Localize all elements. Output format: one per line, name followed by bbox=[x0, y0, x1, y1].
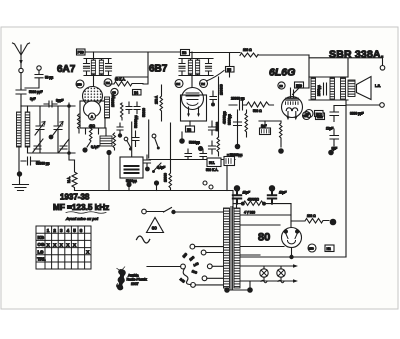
svg-text:10µF: 10µF bbox=[279, 191, 287, 195]
screen circle 250 bbox=[76, 80, 84, 88]
junction dot bbox=[154, 180, 159, 190]
circle 7M bbox=[104, 79, 112, 87]
svg-text:50000µµ: 50000µµ bbox=[134, 115, 138, 128]
svg-text:8000µµ: 8000µµ bbox=[228, 114, 232, 125]
electrolytic 1uF bbox=[260, 121, 271, 135]
svg-text:X: X bbox=[60, 242, 63, 247]
junction dot bbox=[145, 167, 150, 172]
resistor 100R top bbox=[240, 53, 383, 65]
output bottom rail bbox=[309, 99, 348, 101]
svg-text:6B7: 6B7 bbox=[149, 64, 168, 75]
tag box P bbox=[77, 49, 86, 55]
capacitor block bbox=[100, 128, 112, 146]
mains switch bbox=[146, 208, 175, 215]
svg-text:0,1µF: 0,1µF bbox=[91, 145, 99, 149]
svg-text:2000µµ: 2000µµ bbox=[317, 85, 321, 96]
svg-text:80: 80 bbox=[258, 232, 270, 244]
svg-text:MF =123.5 kHz: MF =123.5 kHz bbox=[53, 203, 109, 212]
selector terminal 245 bbox=[191, 283, 224, 288]
tube pins bbox=[86, 128, 99, 134]
svg-text:50 K.A.: 50 K.A. bbox=[115, 78, 126, 82]
filter vertical main bbox=[345, 100, 347, 257]
svg-text:1937-38: 1937-38 bbox=[60, 193, 90, 202]
svg-text:50 µµ: 50 µµ bbox=[45, 76, 53, 80]
circle 6M bbox=[175, 80, 183, 88]
capacitor 5000uuF bbox=[16, 89, 26, 107]
svg-text:E4: E4 bbox=[134, 91, 138, 95]
output transformer bbox=[341, 78, 346, 99]
tube pins arrows bbox=[187, 107, 200, 117]
secondary line 2 bbox=[240, 224, 281, 226]
bus AF bbox=[149, 159, 235, 161]
svg-text:KG: KG bbox=[38, 235, 45, 240]
tag box E3 bbox=[181, 50, 190, 56]
svg-text:E3: E3 bbox=[182, 51, 186, 55]
MF underline bbox=[66, 212, 106, 214]
tag box E4 bbox=[133, 90, 142, 96]
heater line 2 bbox=[240, 279, 298, 282]
svg-text:90: 90 bbox=[112, 90, 116, 94]
svg-text:6A7: 6A7 bbox=[57, 64, 76, 75]
secondary 4V line bbox=[240, 214, 292, 216]
wire to transformer top bbox=[232, 191, 234, 209]
svg-text:E5: E5 bbox=[227, 68, 231, 72]
svg-text:8000 µµF: 8000 µµF bbox=[350, 112, 364, 116]
antenna bbox=[13, 43, 30, 68]
circle 20 bbox=[278, 82, 285, 89]
tag box E5 bbox=[226, 67, 235, 73]
svg-text:M.A.: M.A. bbox=[67, 176, 71, 183]
pilot lamp 1 bbox=[260, 266, 268, 283]
speaker terminal 2 bbox=[346, 103, 384, 108]
tube 80 pin bbox=[289, 248, 293, 260]
svg-text:100 Ω: 100 Ω bbox=[243, 48, 252, 52]
resistor bias bbox=[113, 133, 116, 150]
capacitor pair bbox=[132, 131, 139, 147]
svg-text:1987: 1987 bbox=[131, 282, 139, 286]
svg-text:10000µµ: 10000µµ bbox=[111, 94, 115, 107]
svg-text:= 50000µµ: = 50000µµ bbox=[227, 153, 242, 157]
capacitor on bus bbox=[185, 149, 192, 160]
svg-text:250: 250 bbox=[309, 246, 314, 250]
rectifier 80 tube bbox=[282, 228, 302, 248]
wire band vertical bbox=[132, 122, 143, 158]
antenna terminal A1 bbox=[19, 68, 23, 72]
svg-text:50000: 50000 bbox=[142, 108, 146, 117]
capacitor pair F bbox=[209, 141, 216, 154]
wire mid bus bbox=[28, 152, 76, 154]
svg-text:E2: E2 bbox=[187, 128, 191, 132]
capacitor on bus 2 bbox=[200, 149, 207, 160]
svg-text:10µF: 10µF bbox=[243, 191, 251, 195]
antenna coil L1 bbox=[17, 106, 22, 147]
IF2 wire drop bbox=[191, 52, 193, 59]
wire bus to resistor bbox=[190, 52, 241, 54]
svg-text:X: X bbox=[66, 242, 69, 247]
pot box 2 bbox=[224, 157, 235, 166]
ground bbox=[13, 176, 29, 191]
capacitor coupling G bbox=[229, 100, 247, 110]
tone capacitor bbox=[324, 83, 327, 95]
table X marks bbox=[47, 242, 90, 254]
resistor MA bbox=[72, 160, 77, 191]
resistor grid leak bbox=[78, 114, 81, 133]
padder box bbox=[120, 157, 143, 178]
filter cap 8uF bbox=[330, 129, 339, 145]
svg-text:6L6G: 6L6G bbox=[269, 67, 295, 79]
svg-text:E12: E12 bbox=[316, 112, 322, 116]
circle HP bbox=[305, 110, 313, 118]
tube 6A7 bbox=[83, 87, 103, 121]
capacitor 50uu bbox=[25, 70, 43, 88]
secondary line 4 bbox=[240, 254, 261, 256]
svg-text:8µµF: 8µµF bbox=[56, 99, 63, 103]
resistor 20000 bbox=[245, 110, 248, 137]
capacitor 50000uu bbox=[21, 157, 40, 165]
capacitor pair bbox=[144, 155, 151, 167]
wire antenna down bbox=[20, 73, 22, 89]
wire filter to B+ bbox=[264, 203, 291, 205]
svg-text:60: 60 bbox=[152, 226, 158, 231]
svg-text:SBR 338A.: SBR 338A. bbox=[329, 49, 384, 61]
tag box H2 bbox=[325, 245, 334, 252]
junction dot bbox=[49, 135, 54, 140]
resistor 250A bbox=[160, 85, 163, 121]
svg-text:500 K.A.: 500 K.A. bbox=[206, 168, 218, 172]
filter cap 12uF bbox=[330, 106, 339, 122]
junction dot bbox=[106, 150, 111, 155]
circle 250 out bbox=[303, 112, 311, 120]
tag box E11 bbox=[316, 113, 325, 120]
circle 250 rect bbox=[308, 244, 316, 252]
svg-text:X: X bbox=[47, 242, 50, 247]
PU jack 2 bbox=[209, 185, 213, 189]
speaker bbox=[348, 77, 371, 100]
selector wiper bbox=[183, 269, 191, 285]
cathode arrows bbox=[287, 112, 298, 121]
selector input circle bbox=[181, 264, 186, 269]
resistor 50KA bbox=[104, 82, 143, 87]
selector terminal 110 bbox=[190, 244, 224, 249]
filter cap 10uF a bbox=[233, 185, 241, 204]
filter cap 10uF b bbox=[268, 185, 276, 204]
svg-text:TRL: TRL bbox=[37, 257, 46, 262]
svg-text:HP: HP bbox=[306, 112, 310, 116]
circle 90 bbox=[111, 88, 118, 95]
wire coil down bbox=[19, 147, 28, 174]
top B+ bus bbox=[85, 51, 180, 53]
credit text bbox=[127, 274, 148, 286]
wire cathode row bbox=[259, 120, 281, 122]
tube 6B7 bbox=[182, 88, 204, 110]
tube shield box bbox=[80, 101, 105, 128]
svg-text:40000Ω: 40000Ω bbox=[248, 198, 260, 202]
wire input bus bbox=[21, 105, 75, 107]
heater line 1 bbox=[240, 264, 298, 267]
IF transformer 2 bbox=[179, 59, 213, 76]
svg-text:X: X bbox=[73, 242, 76, 247]
resistor right col bbox=[217, 137, 220, 156]
long bottom bus bbox=[75, 190, 234, 192]
wire right column bbox=[218, 77, 220, 137]
selector terminal 140 bbox=[207, 264, 224, 269]
svg-text:X: X bbox=[53, 242, 56, 247]
svg-text:100000: 100000 bbox=[220, 84, 224, 95]
junction dot bbox=[262, 202, 266, 206]
table row labels bbox=[37, 235, 46, 262]
svg-text:20000 µµ: 20000 µµ bbox=[231, 97, 245, 101]
capacitor pair bbox=[126, 102, 132, 114]
wire cap column bbox=[331, 106, 346, 153]
wire tube to E2 bbox=[189, 121, 191, 126]
junction dot bbox=[126, 182, 131, 191]
svg-text:4 V 300: 4 V 300 bbox=[244, 211, 255, 215]
mermaid logo bbox=[116, 267, 125, 290]
tag box E12 bbox=[315, 111, 324, 117]
speaker terminal 1 bbox=[348, 58, 385, 77]
IF1 wire drop bbox=[93, 52, 95, 59]
svg-text:0,1µF: 0,1µF bbox=[157, 166, 165, 170]
svg-text:P50: P50 bbox=[78, 51, 84, 55]
junction dot AVC bbox=[179, 132, 185, 144]
mains wire to transformer bbox=[175, 211, 224, 213]
svg-text:50000 µµ: 50000 µµ bbox=[36, 162, 50, 166]
resistor cathode bbox=[280, 121, 283, 147]
wire pot down bbox=[226, 166, 228, 191]
pot box PU bbox=[207, 158, 221, 167]
junction dot bbox=[278, 148, 284, 154]
osc coil L2 bbox=[25, 106, 30, 147]
junction dot bbox=[241, 202, 245, 206]
circle 7M2 bbox=[200, 80, 208, 88]
capacitor 8uu bbox=[44, 101, 57, 107]
svg-text:L.S.: L.S. bbox=[375, 84, 381, 88]
svg-text:6M: 6M bbox=[176, 82, 181, 86]
wire B+ vertical bbox=[290, 204, 292, 227]
trimmer C1 bbox=[35, 106, 45, 153]
capacitor grid2 bbox=[210, 91, 217, 107]
alignment table bbox=[36, 226, 91, 269]
junction dot filter bbox=[328, 150, 334, 156]
transformer bottom dots bbox=[224, 281, 253, 293]
wire E5 stub bbox=[229, 53, 231, 78]
tube 6L6G bbox=[282, 88, 303, 118]
capacitor dark bbox=[117, 123, 123, 138]
svg-text:20: 20 bbox=[279, 84, 283, 88]
svg-text:E10: E10 bbox=[296, 84, 302, 88]
capacitor 8000uu bbox=[234, 122, 242, 126]
resistor R osc bbox=[121, 103, 124, 120]
wire grid column bbox=[237, 110, 239, 146]
svg-text:250: 250 bbox=[77, 82, 82, 86]
trimmer C4 bbox=[59, 139, 69, 152]
junction dot bbox=[198, 146, 203, 151]
table headers bbox=[47, 228, 83, 233]
B+ bottom bus bbox=[235, 256, 346, 258]
wire 6B7 drop bbox=[116, 52, 148, 84]
selector input line bbox=[147, 266, 181, 268]
tag box E10 bbox=[295, 82, 304, 88]
svg-text:1µF: 1µF bbox=[261, 124, 267, 128]
wire grid lead 6B7 bbox=[191, 76, 193, 89]
pilot lamp 2 bbox=[277, 266, 285, 283]
junction dot bbox=[17, 171, 22, 176]
fuse triangle bbox=[147, 218, 164, 233]
junction dot bbox=[235, 144, 241, 150]
svg-text:5000µµ: 5000µµ bbox=[189, 141, 200, 145]
svg-text:10000: 10000 bbox=[164, 173, 168, 182]
trimmer C2 bbox=[53, 106, 63, 153]
svg-text:RU.: RU. bbox=[209, 161, 215, 165]
earth terminal A2 bbox=[37, 66, 41, 70]
svg-text:LG: LG bbox=[38, 249, 45, 254]
trimmer C3 bbox=[33, 139, 43, 152]
svg-text:12µF: 12µF bbox=[326, 127, 333, 131]
svg-text:100 Ω: 100 Ω bbox=[307, 214, 316, 218]
resistor 10000 vert bbox=[169, 123, 172, 190]
tone coil 2 bbox=[330, 78, 335, 99]
AC sine bbox=[137, 236, 150, 243]
svg-text:3µF: 3µF bbox=[30, 97, 36, 101]
selector terminal 160 bbox=[202, 276, 224, 281]
filter line bbox=[233, 203, 242, 205]
wire 7M2 to E5 bbox=[207, 71, 225, 82]
transformer secondary bbox=[234, 208, 240, 288]
HT terminal dot bbox=[330, 219, 337, 226]
tag box E2 bbox=[186, 126, 195, 132]
switch lever S3 bbox=[152, 163, 165, 173]
resistor 100R out bbox=[291, 219, 329, 224]
PU jack 1 bbox=[203, 181, 207, 185]
svg-text:5000 µµF: 5000 µµF bbox=[29, 90, 43, 94]
capacitor pair E bbox=[209, 121, 216, 135]
svg-text:Avant mise au pot: Avant mise au pot bbox=[65, 216, 99, 221]
resistor screen bbox=[87, 126, 92, 147]
transformer core bbox=[231, 207, 233, 291]
transformer primary bbox=[224, 208, 230, 288]
junction dot bbox=[67, 151, 71, 155]
tube box 6B7 bbox=[181, 95, 207, 121]
wire right vertical bbox=[69, 103, 75, 160]
resistor 500 grid bbox=[247, 102, 274, 107]
wire band vertical 2 bbox=[148, 120, 150, 158]
selector terminal 130 bbox=[201, 250, 224, 255]
wire down bbox=[108, 154, 110, 191]
wire plate drop bbox=[308, 55, 310, 88]
cathode loops bbox=[286, 108, 297, 111]
switch lever S1 bbox=[124, 137, 132, 150]
secondary line 3 bbox=[240, 246, 285, 248]
capacitor pair2 bbox=[134, 102, 140, 114]
svg-text:40000µµ: 40000µµ bbox=[223, 111, 227, 124]
svg-text:250 A: 250 A bbox=[155, 95, 159, 104]
svg-text:H2: H2 bbox=[327, 247, 331, 251]
junction dot bbox=[67, 104, 71, 108]
osc coil anode bbox=[105, 97, 110, 118]
svg-text:X: X bbox=[86, 250, 89, 255]
svg-text:OG: OG bbox=[38, 242, 45, 247]
svg-text:7M: 7M bbox=[201, 82, 206, 86]
output top rail bbox=[309, 76, 348, 78]
mains terminal bbox=[142, 209, 147, 214]
junction dot bbox=[82, 147, 87, 152]
resistor 40000 bbox=[243, 201, 263, 205]
wire cap a to transformer bbox=[236, 200, 238, 208]
wire top cap lead bbox=[293, 88, 310, 95]
tone coil bbox=[311, 78, 316, 99]
svg-text:500 Ω: 500 Ω bbox=[253, 109, 262, 113]
wire grid lead bbox=[93, 76, 95, 88]
svg-text:50000: 50000 bbox=[216, 122, 220, 131]
switch lever S2 bbox=[152, 134, 160, 149]
IF transformer 1 bbox=[84, 59, 112, 76]
